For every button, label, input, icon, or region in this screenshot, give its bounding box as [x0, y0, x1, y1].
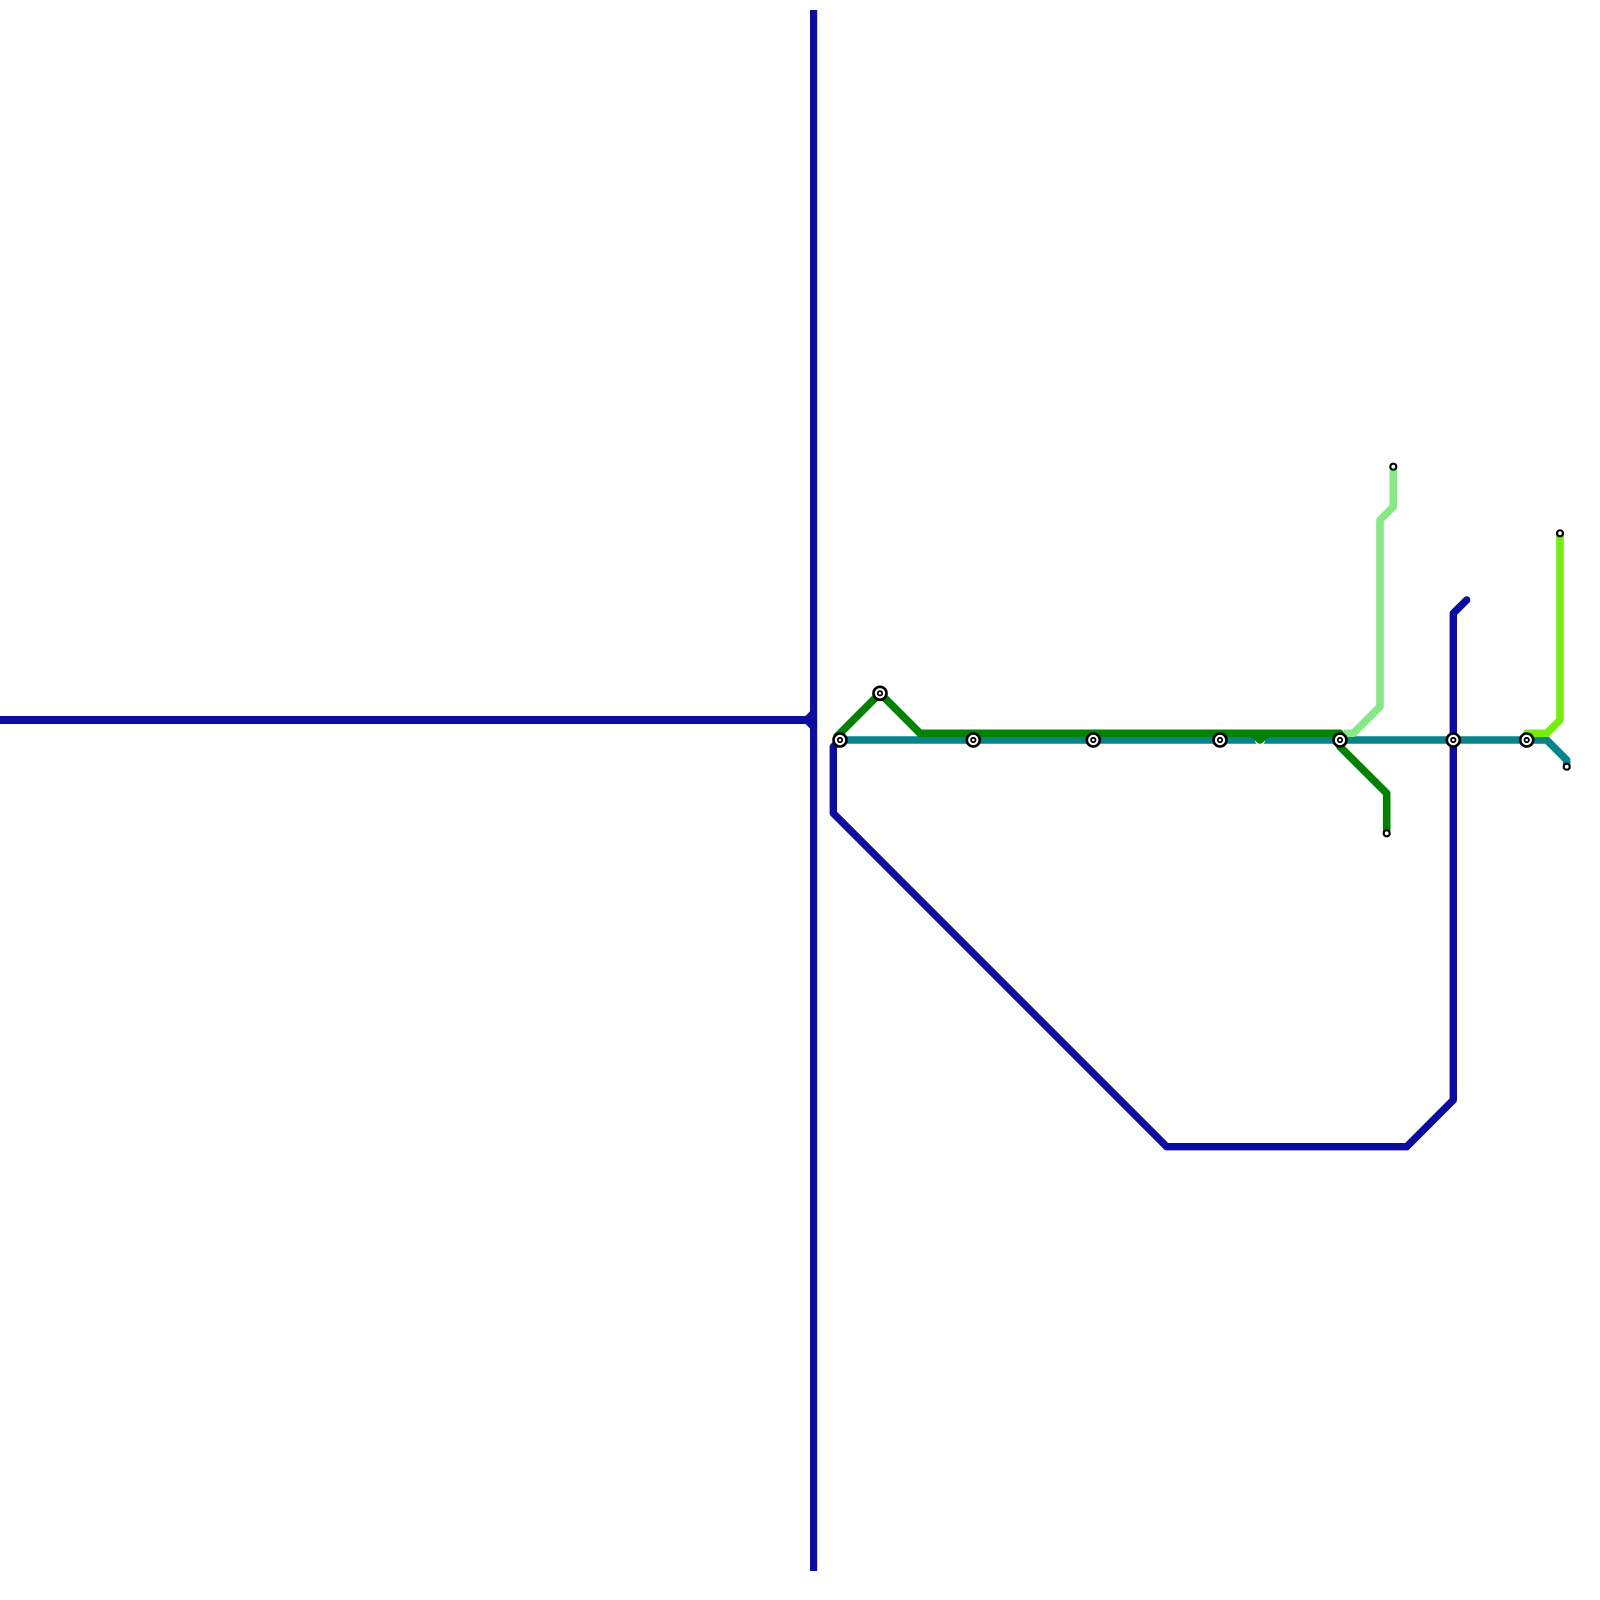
- pale green line: [1353, 467, 1393, 734]
- station S2: [834, 734, 847, 747]
- navy fork down: [807, 720, 814, 727]
- station S5: [1214, 734, 1227, 747]
- white gap on teal line at node (1260,740): [1255, 735, 1265, 745]
- dark green main line: [837, 693, 1340, 736]
- navy horizontal line: [0, 716, 807, 724]
- station S7: [1447, 734, 1460, 747]
- pale green line end stub: [1344, 729, 1353, 737]
- endpoint dot pale green: [1390, 464, 1396, 470]
- endpoint dot dark green branch: [1384, 830, 1390, 836]
- station S3: [967, 734, 980, 747]
- station S8: [1520, 734, 1533, 747]
- dark green branch: [1340, 740, 1387, 833]
- navy loop line: [833, 600, 1466, 1147]
- navy vertical line: [810, 10, 817, 1571]
- station S6: [1334, 734, 1347, 747]
- endpoint dot bright green: [1557, 530, 1563, 536]
- navy fork up: [807, 713, 814, 720]
- station S4: [1087, 734, 1100, 747]
- station S1: [874, 687, 887, 700]
- endpoint dot teal: [1564, 764, 1570, 770]
- dark green V node dip at (1260,740): [1253, 733, 1266, 740]
- teal line: [840, 740, 1567, 767]
- bright green line: [1527, 533, 1560, 733]
